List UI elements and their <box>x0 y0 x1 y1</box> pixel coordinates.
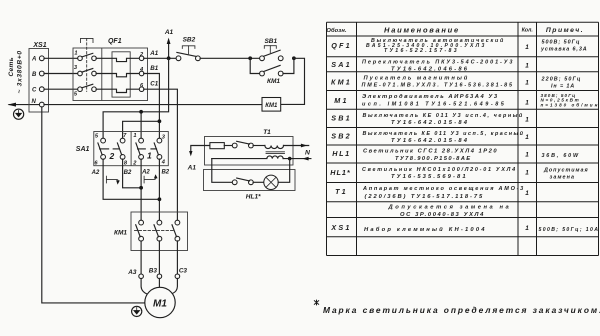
svg-text:Т1: Т1 <box>335 187 348 196</box>
svg-text:ТУ16-522.157-83: ТУ16-522.157-83 <box>384 48 459 54</box>
SA1 contact 2 <box>120 138 125 143</box>
wire N input with left arrow <box>9 104 40 106</box>
svg-text:SA1: SA1 <box>76 146 90 153</box>
ground earth terminal symbol <box>14 109 24 119</box>
svg-text:ТУ16-642.015-84: ТУ16-642.015-84 <box>391 120 469 126</box>
wire SB2 to SB1 <box>200 57 260 59</box>
svg-text:2: 2 <box>109 151 115 161</box>
QF1 linkage bracket <box>81 38 94 42</box>
KM1 pole 1 <box>139 220 144 225</box>
coil KM1 <box>262 98 281 112</box>
node A1 up arrow <box>168 43 170 59</box>
wire SA1 term 2 down <box>140 159 142 220</box>
svg-text:Сеть: Сеть <box>8 57 15 76</box>
svg-text:Марка светильника определяется: Марка светильника определяется заказчико… <box>323 305 600 315</box>
wire SB1 to coil right side <box>281 58 305 104</box>
svg-text:А1: А1 <box>164 29 174 36</box>
svg-text:SB2: SB2 <box>331 132 352 141</box>
svg-text:1: 1 <box>525 134 529 141</box>
wire N down the left side to motor <box>42 107 145 303</box>
svg-text:Обозн.: Обозн. <box>326 27 347 34</box>
svg-text:XS1: XS1 <box>330 223 351 232</box>
svg-text:SB1: SB1 <box>331 114 352 123</box>
svg-text:Набор клеммный КН-1004: Набор клеммный КН-1004 <box>364 226 487 233</box>
svg-text:1: 1 <box>525 80 529 87</box>
svg-text:М1: М1 <box>153 298 167 309</box>
svg-text:Выключатель КЕ 011 У3 исп.4, ч: Выключатель КЕ 011 У3 исп.4, черный <box>363 112 524 119</box>
svg-text:SB2: SB2 <box>183 37 196 44</box>
junction merge left <box>139 186 143 190</box>
wire B to QF1 <box>44 73 78 75</box>
quantity column <box>525 44 529 232</box>
wire C1 to KM1 pole 3 <box>144 89 178 220</box>
switch in T1 <box>232 143 237 148</box>
name column <box>362 37 526 233</box>
wire B1 to SA1 contacts 2 and 4 <box>144 74 160 139</box>
wire A1 to SA1 contacts 1 and 3 <box>103 58 169 138</box>
motor leads <box>141 278 148 294</box>
svg-text:С3: С3 <box>179 268 188 275</box>
wire secondary left down to lamp switch <box>212 159 233 183</box>
svg-text:1: 1 <box>147 150 152 160</box>
node N terminal <box>39 102 44 107</box>
QF1 pole 3 <box>78 87 83 92</box>
svg-text:Выключатель КЕ 011 У3 исп.5, к: Выключатель КЕ 011 У3 исп.5, красный <box>363 130 525 137</box>
spec table frame <box>327 22 599 255</box>
svg-text:C: C <box>32 88 37 94</box>
svg-text:HL1: HL1 <box>332 149 350 158</box>
svg-text:HL1*: HL1* <box>246 194 261 201</box>
svg-text:Пускатель магнитный: Пускатель магнитный <box>364 74 470 81</box>
svg-text:1: 1 <box>525 117 529 124</box>
QF1 pole 1 <box>78 56 83 61</box>
designator column <box>330 41 352 232</box>
motor terminal B3 <box>157 274 162 279</box>
svg-text:~ 3x380В+0: ~ 3x380В+0 <box>17 50 24 93</box>
svg-text:А2: А2 <box>141 170 150 176</box>
QF1 pole 2 <box>78 71 83 76</box>
svg-text:1: 1 <box>74 50 77 56</box>
QF1 thermal element phase A <box>96 58 139 61</box>
node A1 stub arrow to T1 <box>191 146 210 153</box>
junction A1 branch <box>139 110 143 114</box>
svg-text:A: A <box>31 57 36 63</box>
svg-text:уставка 6,3А: уставка 6,3А <box>540 46 588 52</box>
svg-text:QF1: QF1 <box>108 38 122 45</box>
wire KM1 to motor terminals <box>140 241 142 274</box>
svg-text:36В, 60W: 36В, 60W <box>542 153 580 159</box>
QF1 output terminals 2 4 6 <box>139 56 144 61</box>
wire SA1 term 8 to KM1 pole 1 <box>123 159 142 188</box>
wire secondary to N arrow <box>283 158 311 160</box>
svg-text:А1: А1 <box>149 50 158 57</box>
svg-text:3: 3 <box>162 135 166 141</box>
svg-text:1: 1 <box>525 190 529 197</box>
svg-text:ОС 3Р.0040-83 УХЛ4: ОС 3Р.0040-83 УХЛ4 <box>400 212 485 218</box>
svg-text:1: 1 <box>525 63 529 70</box>
junction secondary <box>288 157 292 161</box>
SA1 contact 3 <box>139 138 144 143</box>
svg-text:N: N <box>32 99 37 105</box>
svg-text:М1: М1 <box>334 96 348 105</box>
table header <box>326 25 584 34</box>
wire N bus to KM1 coil <box>44 104 262 106</box>
svg-text:Аппарат местного освещения АМ: Аппарат местного освещения АМО-3 <box>362 186 525 192</box>
junction B1 branch <box>158 119 162 123</box>
svg-text:Iн = 1А: Iн = 1А <box>551 84 575 90</box>
svg-text:исп. IМ1081 ТУ16-521.64: исп. IМ1081 ТУ16-521.649-85 <box>362 102 506 108</box>
svg-text:КМ1: КМ1 <box>265 103 278 109</box>
svg-text:С1: С1 <box>150 81 158 88</box>
fuse FU <box>210 143 224 149</box>
svg-text:1: 1 <box>525 100 529 107</box>
ground earth at motor <box>132 306 142 316</box>
svg-text:SB1: SB1 <box>264 38 277 45</box>
transformer T1 primary <box>265 146 284 149</box>
svg-text:Кол.: Кол. <box>522 28 534 34</box>
wire A1 from QF1 to SB2 <box>144 57 177 59</box>
svg-text:5: 5 <box>74 91 78 97</box>
motor terminal C3 <box>175 274 180 279</box>
SA1 position indicator right <box>144 176 156 183</box>
svg-text:ТУ78.900.Р150-8АЕ: ТУ78.900.Р150-8АЕ <box>395 156 472 162</box>
SA1 contact 1 <box>101 138 106 143</box>
SA1 contact 4 <box>157 138 162 143</box>
wire SA1 term 6 to KM1 pole 2 <box>103 159 159 199</box>
svg-text:(220/36В) ТУ16-517.118-75: (220/36В) ТУ16-517.118-75 <box>365 194 485 200</box>
node B terminal <box>39 71 44 76</box>
motor M1 <box>145 287 175 317</box>
svg-text:Т1: Т1 <box>263 129 271 136</box>
wire primary out to N arrow <box>284 145 309 147</box>
svg-text:4: 4 <box>161 160 166 166</box>
svg-text:1: 1 <box>525 225 529 232</box>
svg-text:Светильник СГС1 28.УХЛ4 1Р20: Светильник СГС1 28.УХЛ4 1Р20 <box>363 149 498 155</box>
svg-text:ТУ16-535.569-81: ТУ16-535.569-81 <box>391 174 468 180</box>
wire fuse to switch <box>224 145 232 147</box>
SA1 position indicator left <box>106 176 118 183</box>
footnote <box>314 300 319 306</box>
junction A2-B2 merge right <box>158 197 162 201</box>
svg-text:В3: В3 <box>149 268 158 275</box>
svg-text:А3: А3 <box>127 269 137 276</box>
svg-text:Светильник НКС01х100/Л20-01 УХ: Светильник НКС01х100/Л20-01 УХЛ4 <box>362 167 517 173</box>
svg-text:500В; 50Гц; 10А: 500В; 50Гц; 10А <box>539 227 600 233</box>
transformer T1 secondary <box>212 156 283 159</box>
contact KM1 auxiliary <box>250 58 260 73</box>
transformer T1 core <box>266 152 285 154</box>
svg-text:1: 1 <box>525 152 529 159</box>
KM1 pole 2 <box>157 220 162 225</box>
luminaire HL1 box <box>204 170 296 191</box>
svg-text:220В; 50Гц: 220В; 50Гц <box>541 77 582 83</box>
svg-text:Допускается замена на: Допускается замена на <box>388 205 512 211</box>
svg-text:КМ1: КМ1 <box>331 78 352 87</box>
motor terminal A3 <box>139 274 144 279</box>
notes column <box>539 39 600 233</box>
svg-text:1: 1 <box>133 133 136 139</box>
svg-text:HL1*: HL1* <box>330 168 351 177</box>
svg-text:В2: В2 <box>161 169 169 175</box>
wire SA1 term 4 down <box>158 159 160 220</box>
svg-text:SA1: SA1 <box>331 60 352 69</box>
wire C to QF1 <box>44 88 78 90</box>
svg-text:А1: А1 <box>187 165 197 172</box>
svg-text:n=1380 об/мин: n=1380 об/мин <box>541 101 600 107</box>
svg-text:3: 3 <box>74 65 78 71</box>
svg-text:Наименование: Наименование <box>384 25 460 34</box>
node A terminal <box>39 56 44 61</box>
wire switch to primary <box>253 145 265 147</box>
junction A1 <box>167 56 171 60</box>
node C terminal <box>39 87 44 92</box>
junction SB1 left <box>248 56 252 60</box>
wire switch to lamp <box>253 181 264 183</box>
svg-text:Примеч.: Примеч. <box>546 27 584 34</box>
svg-text:ТУ16-642.046-86: ТУ16-642.046-86 <box>391 66 469 72</box>
svg-text:5: 5 <box>95 134 99 140</box>
svg-text:Электродвигатель АИР63А4 У3: Электродвигатель АИР63А4 У3 <box>362 94 499 100</box>
svg-text:А2: А2 <box>91 170 100 176</box>
QF1 thermal element phase B <box>96 74 139 77</box>
svg-text:В1: В1 <box>150 65 158 72</box>
QF1 thermal element phase C <box>96 89 139 92</box>
svg-text:1: 1 <box>525 170 529 177</box>
svg-text:КМ1: КМ1 <box>114 229 127 236</box>
svg-text:ПМЕ-071.МВ.УХЛ3. ТУ16-536.3: ПМЕ-071.МВ.УХЛ3. ТУ16-536.381-85 <box>362 83 514 89</box>
KM1 pole 3 <box>175 220 180 225</box>
svg-text:500В; 50Гц: 500В; 50Гц <box>542 39 581 45</box>
junction SB1 right <box>292 56 296 60</box>
lamp HL1 <box>264 175 278 189</box>
svg-text:1: 1 <box>525 44 529 51</box>
svg-text:Допустимая: Допустимая <box>543 168 589 174</box>
switch in HL1 <box>232 180 237 185</box>
wire lamp to junction <box>278 159 290 183</box>
svg-text:замена: замена <box>550 175 576 181</box>
wire A to QF1 <box>44 57 78 59</box>
svg-text:B: B <box>32 72 37 78</box>
svg-text:QF1: QF1 <box>331 41 352 50</box>
svg-text:Переключатель ПКУ3-54С-2001-У: Переключатель ПКУ3-54С-2001-У3 <box>362 60 514 66</box>
svg-text:N: N <box>305 150 311 157</box>
svg-text:ТУ16-642.015-84: ТУ16-642.015-84 <box>391 138 469 144</box>
svg-text:В2: В2 <box>124 170 132 176</box>
svg-text:КМ1: КМ1 <box>267 78 280 85</box>
